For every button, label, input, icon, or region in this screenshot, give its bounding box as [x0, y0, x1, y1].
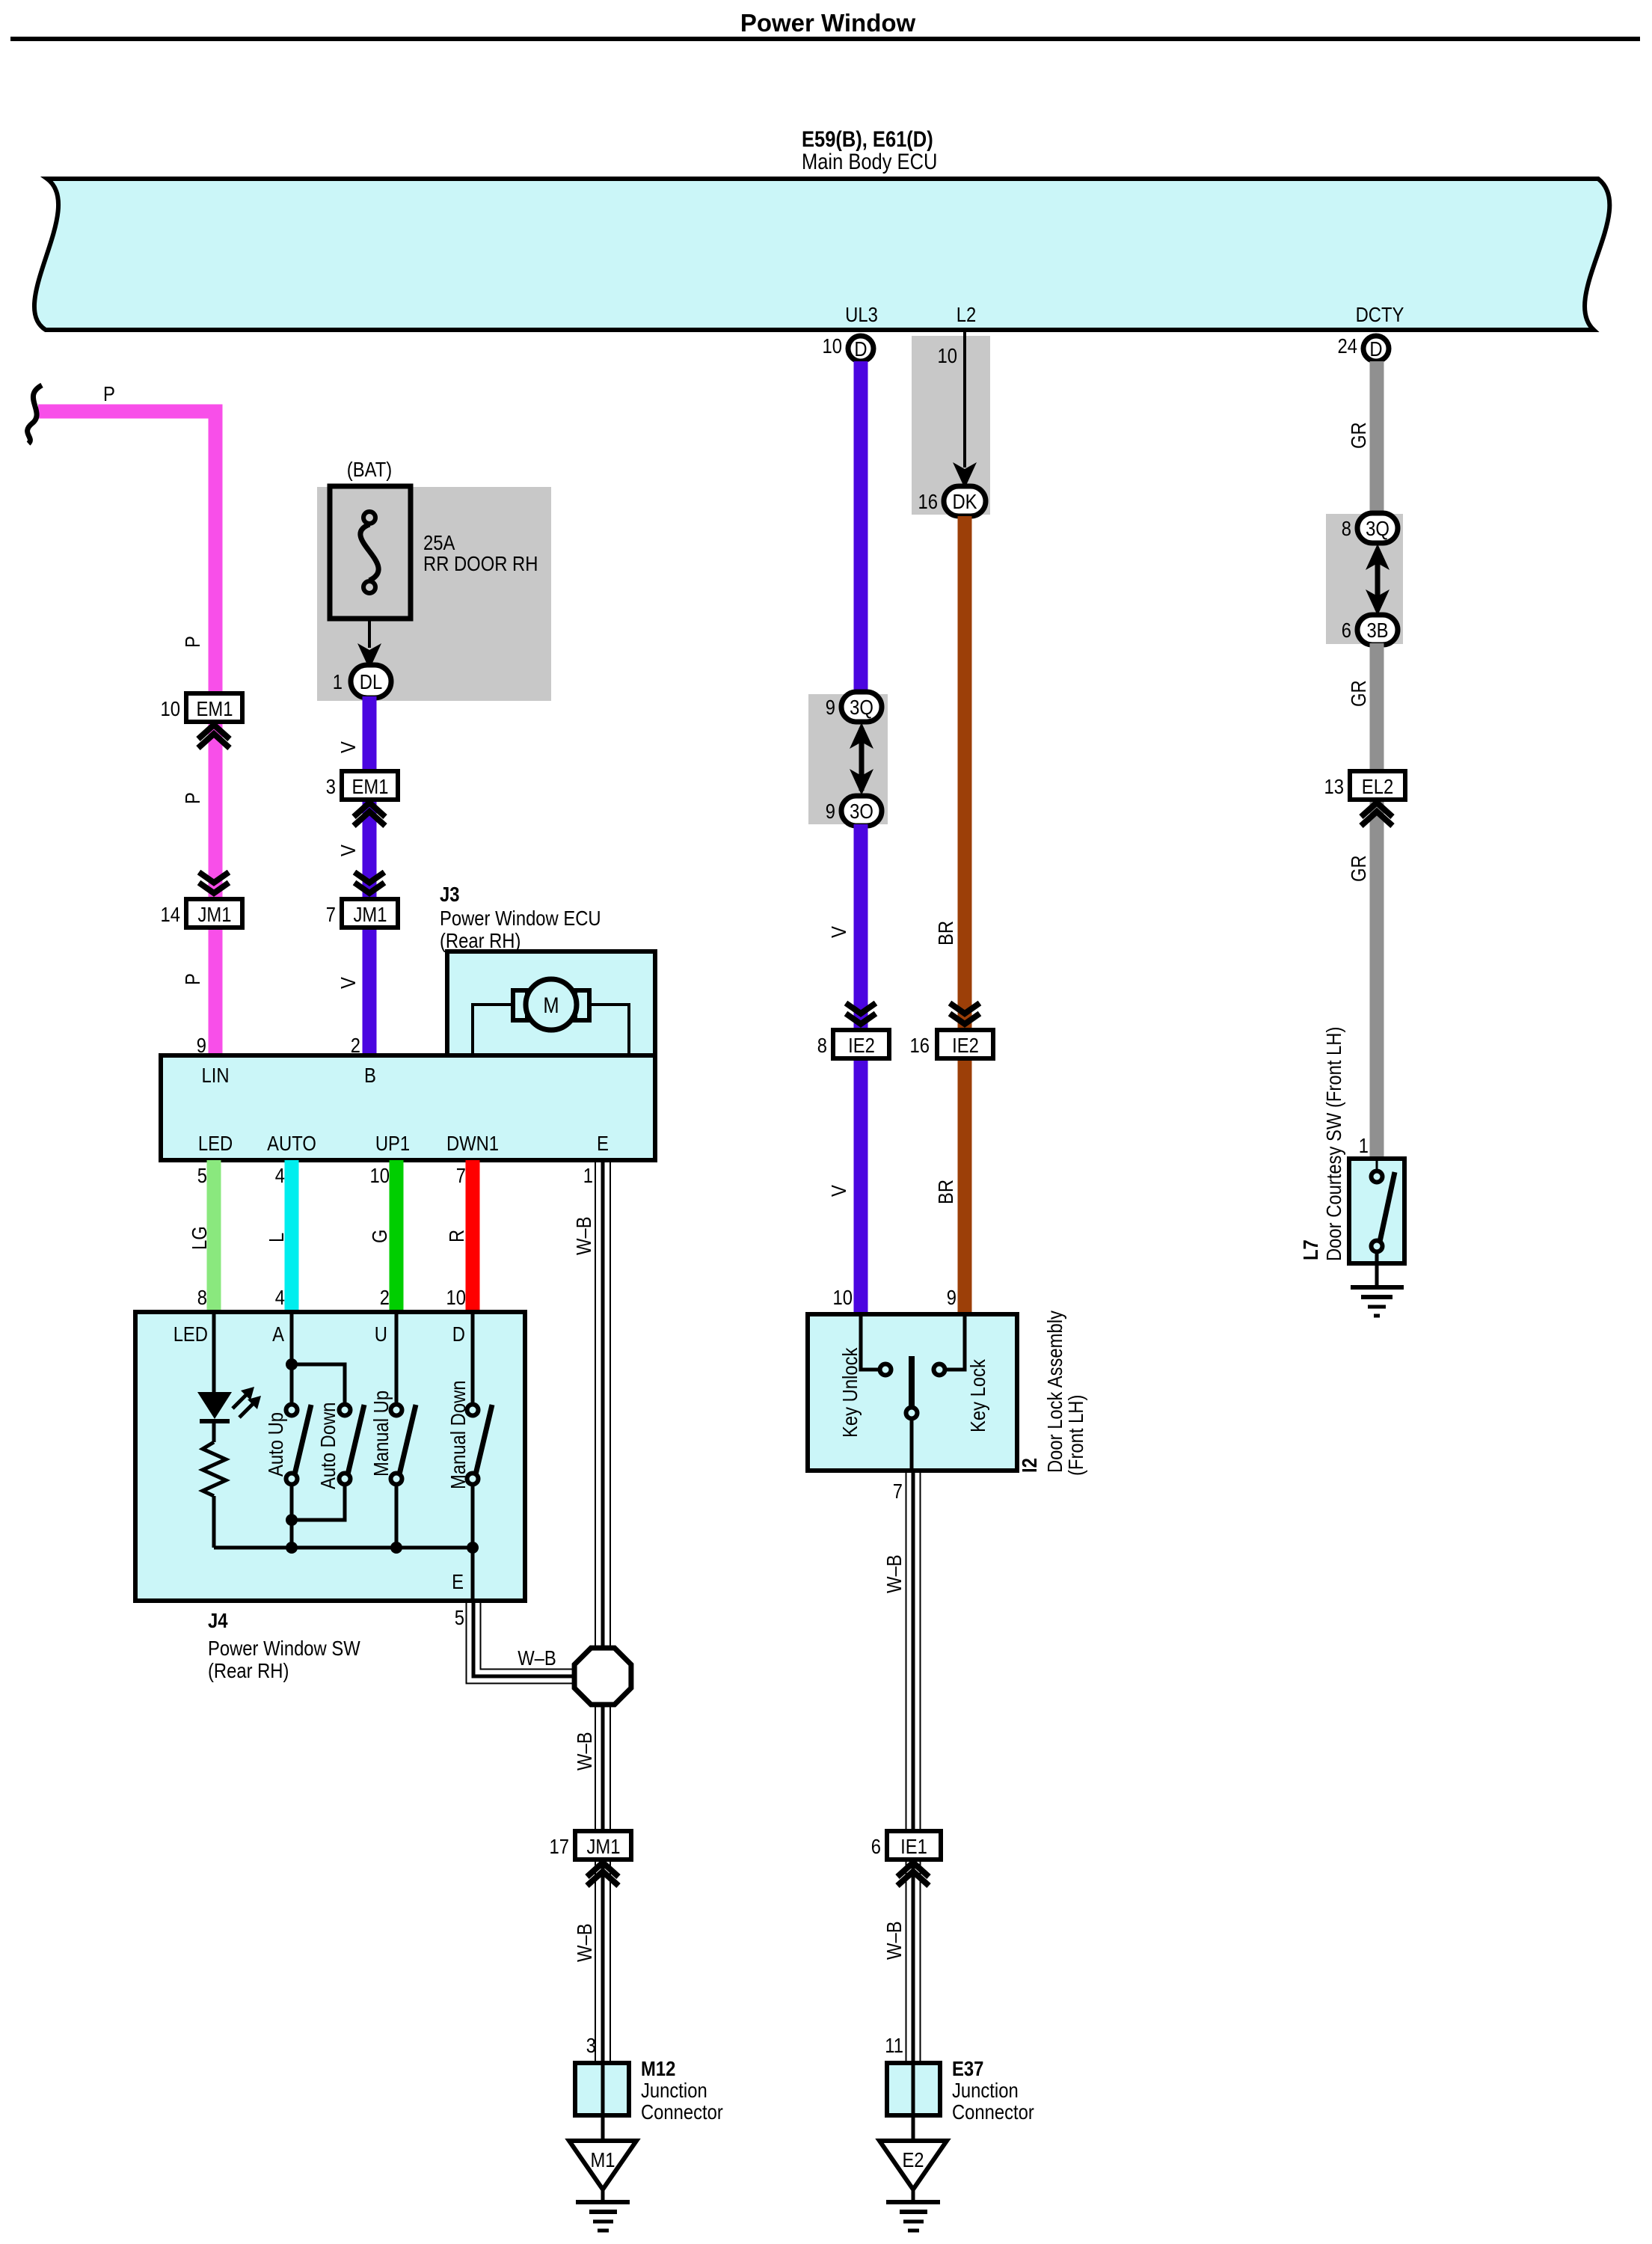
svg-text:V: V: [337, 977, 360, 989]
connector 14 JM1: [161, 899, 243, 928]
connector chevron below JM1: [587, 1863, 618, 1886]
svg-text:11: 11: [885, 2034, 903, 2057]
svg-text:LED: LED: [174, 1322, 208, 1346]
connector 6 IE1: [871, 1831, 941, 1860]
svg-text:U: U: [375, 1322, 387, 1346]
connector 16 DK: [918, 486, 986, 516]
svg-text:L2: L2: [956, 303, 977, 326]
svg-text:DWN1: DWN1: [446, 1132, 499, 1155]
svg-text:J4: J4: [208, 1609, 228, 1632]
svg-text:I2: I2: [1018, 1458, 1041, 1473]
switch Auto Up: [286, 1405, 312, 1485]
node bus D: [467, 1542, 479, 1554]
svg-text:IE2: IE2: [952, 1034, 979, 1057]
svg-text:10: 10: [370, 1164, 390, 1187]
svg-text:P: P: [181, 792, 204, 804]
wire L (cyan): [285, 1160, 299, 1312]
svg-text:UL3: UL3: [845, 303, 878, 326]
svg-text:1: 1: [333, 670, 343, 693]
connector D (UL3 pin 10): [823, 334, 874, 361]
svg-text:LG: LG: [188, 1226, 211, 1250]
svg-text:Connector: Connector: [641, 2100, 723, 2124]
svg-text:3B: 3B: [1366, 619, 1388, 642]
junction connector M12: [575, 2063, 629, 2115]
connector 9 3Q: [826, 692, 882, 722]
wire Manual Down to bus: [471, 1484, 475, 1548]
svg-text:Junction: Junction: [952, 2079, 1019, 2102]
connector chevron below IE1: [897, 1863, 929, 1886]
wire W-B from J3 E to ground junction: [595, 1160, 610, 2063]
svg-text:J3: J3: [440, 883, 460, 906]
connector 17 JM1: [550, 1831, 632, 1860]
svg-text:1: 1: [583, 1164, 593, 1187]
svg-text:5: 5: [455, 1606, 464, 1629]
connector 6 3B: [1342, 615, 1398, 645]
svg-text:9: 9: [826, 696, 835, 719]
bus wire: [214, 1546, 473, 1550]
inter-harness arrow 3Q-3O: [850, 723, 873, 795]
connector 10 EM1: [161, 693, 243, 722]
connector chevron above JM1: [199, 872, 229, 893]
J4 Power Window SW box: [135, 1312, 525, 1601]
svg-text:(BAT): (BAT): [347, 458, 392, 481]
svg-text:IE2: IE2: [848, 1034, 875, 1057]
svg-text:1: 1: [1359, 1134, 1369, 1157]
svg-text:BR: BR: [934, 1180, 957, 1204]
svg-text:E: E: [597, 1132, 609, 1155]
svg-text:16: 16: [918, 490, 939, 513]
svg-text:W–B: W–B: [572, 1216, 595, 1255]
connector chevron above IE2: [846, 1003, 876, 1024]
svg-text:8: 8: [817, 1034, 827, 1057]
svg-text:7: 7: [456, 1164, 466, 1187]
shaded area 3Q/3O: [808, 694, 888, 824]
svg-text:6: 6: [1342, 619, 1351, 642]
connector chevron above IE2: [950, 1003, 980, 1024]
svg-text:10: 10: [938, 344, 958, 367]
svg-text:Door Courtesy SW (Front LH): Door Courtesy SW (Front LH): [1322, 1027, 1345, 1261]
junction connector E37: [887, 2063, 940, 2115]
switch Manual Down: [467, 1405, 493, 1485]
svg-text:D: D: [854, 337, 867, 361]
svg-text:3: 3: [326, 775, 336, 798]
svg-text:10: 10: [823, 334, 843, 358]
svg-text:5: 5: [197, 1164, 207, 1187]
svg-text:4: 4: [275, 1164, 285, 1187]
wire E37 to ground: [912, 2115, 915, 2142]
svg-text:V: V: [337, 741, 360, 753]
svg-text:P: P: [181, 636, 204, 648]
svg-text:(Rear RH): (Rear RH): [440, 929, 521, 952]
wire L2 to DK: [963, 332, 966, 467]
LED D1: [197, 1387, 261, 1421]
svg-text:Power Window: Power Window: [740, 9, 916, 37]
svg-text:M12: M12: [641, 2057, 675, 2080]
motor M: [513, 979, 589, 1030]
connector 8 IE2: [817, 1030, 889, 1058]
arrow into DL: [357, 643, 381, 669]
Main Body ECU band (E59/E61): [34, 179, 1609, 330]
svg-text:EL2: EL2: [1362, 775, 1393, 798]
connector chevron above JM1: [354, 872, 384, 893]
ground M1: [569, 2141, 636, 2231]
svg-text:UP1: UP1: [375, 1132, 410, 1155]
svg-text:JM1: JM1: [198, 903, 232, 926]
wire LED to resistor: [212, 1421, 216, 1442]
svg-text:9: 9: [826, 800, 835, 823]
svg-text:M1: M1: [590, 2148, 615, 2171]
svg-text:(Front LH): (Front LH): [1064, 1395, 1087, 1476]
svg-text:Key Lock: Key Lock: [966, 1358, 989, 1432]
wire BR (brown) DK to door lock: [958, 516, 972, 1314]
wire GR from 3B to L7: [1370, 643, 1384, 1161]
key lock contact: [934, 1314, 965, 1376]
fuse 25A RR DOOR RH: [330, 486, 411, 619]
connector 8 3Q: [1342, 513, 1398, 543]
connector 7 JM1: [326, 899, 398, 928]
wire LG: [207, 1160, 221, 1312]
svg-text:A: A: [272, 1322, 284, 1346]
connector 3 EM1: [326, 771, 398, 800]
svg-text:25A: 25A: [423, 531, 455, 554]
svg-text:B: B: [364, 1064, 376, 1087]
motor wire right: [588, 1005, 629, 1055]
svg-text:E37: E37: [952, 2057, 983, 2080]
svg-text:14: 14: [161, 903, 181, 926]
node bus A: [286, 1542, 298, 1554]
svg-text:W–B: W–B: [882, 1921, 906, 1960]
A branch wire: [290, 1312, 294, 1405]
switch Manual Up: [391, 1405, 417, 1485]
svg-text:Manual Up: Manual Up: [369, 1391, 393, 1477]
svg-text:BR: BR: [934, 921, 957, 945]
svg-text:L: L: [265, 1233, 288, 1242]
svg-text:10: 10: [446, 1286, 467, 1309]
svg-text:17: 17: [550, 1835, 570, 1858]
svg-text:E59(B), E61(D): E59(B), E61(D): [802, 127, 933, 152]
wire V from UL3 D to 3Q: [854, 361, 868, 696]
svg-text:W–B: W–B: [573, 1732, 596, 1771]
svg-text:3O: 3O: [850, 800, 873, 823]
switch Auto Down: [340, 1405, 365, 1485]
svg-text:LED: LED: [198, 1132, 233, 1155]
svg-text:9: 9: [947, 1286, 956, 1309]
D branch wire: [471, 1312, 475, 1405]
svg-text:Power Window SW: Power Window SW: [208, 1637, 360, 1660]
wire W-B from J4 E to junction: [467, 1601, 576, 1684]
svg-text:E2: E2: [902, 2148, 924, 2171]
svg-text:Connector: Connector: [952, 2100, 1034, 2124]
arrow into DK: [953, 462, 977, 488]
svg-text:Main Body ECU: Main Body ECU: [802, 150, 937, 174]
svg-text:D: D: [1369, 337, 1382, 361]
connector 9 3O: [826, 796, 882, 826]
svg-text:3Q: 3Q: [850, 696, 873, 719]
svg-text:EM1: EM1: [197, 697, 233, 720]
svg-text:DCTY: DCTY: [1356, 303, 1404, 326]
node bus U: [390, 1542, 402, 1554]
svg-text:Key Unlock: Key Unlock: [838, 1347, 862, 1438]
wire W-B door lock to ground: [906, 1471, 921, 2063]
svg-text:EM1: EM1: [352, 775, 389, 798]
connector chevron below EL2: [1361, 803, 1392, 826]
svg-text:GR: GR: [1347, 680, 1370, 707]
wire Auto Down to join: [292, 1484, 345, 1520]
svg-text:Manual Down: Manual Down: [446, 1381, 470, 1490]
wire M12 to ground: [601, 2115, 605, 2142]
wire V from 3O to door lock: [854, 824, 868, 1314]
wire GR from DCTY D to 3Q: [1370, 361, 1384, 516]
svg-text:16: 16: [910, 1034, 930, 1057]
svg-text:3Q: 3Q: [1366, 517, 1390, 540]
svg-text:E: E: [452, 1570, 464, 1593]
svg-text:2: 2: [380, 1286, 390, 1309]
inter-harness arrow 3Q-3B: [1366, 544, 1390, 616]
title rule: [10, 37, 1640, 41]
svg-text:8: 8: [1342, 517, 1351, 540]
ground (L7): [1351, 1287, 1404, 1316]
wire P (pink) from harness break to J3 pin LIN: [38, 411, 215, 1058]
ground E2: [879, 2141, 947, 2231]
key unlock contact: [861, 1314, 891, 1376]
svg-text:RR DOOR RH: RR DOOR RH: [423, 552, 538, 575]
wire Manual Up to bus: [395, 1484, 399, 1548]
svg-text:DL: DL: [360, 670, 382, 693]
wire V (violet) DL to J3 pin B: [363, 696, 377, 1058]
connector chevron below EM1: [354, 803, 385, 826]
connector chevron below EM1: [198, 725, 230, 748]
svg-text:Auto Down: Auto Down: [316, 1402, 340, 1489]
svg-text:Auto Up: Auto Up: [264, 1412, 287, 1477]
jumper A to Auto Down: [292, 1364, 345, 1405]
svg-text:M: M: [543, 993, 559, 1018]
wire resistor to bus: [212, 1496, 216, 1548]
svg-text:W–B: W–B: [518, 1646, 556, 1670]
svg-text:4: 4: [275, 1286, 285, 1309]
I2 Door Lock Assembly box: [808, 1314, 1017, 1471]
connector D (DCTY pin 24): [1338, 334, 1390, 361]
svg-text:P: P: [181, 973, 204, 985]
node auto join: [286, 1514, 298, 1526]
shaded area L2: [912, 336, 990, 515]
wire fuse to DL: [368, 619, 371, 648]
svg-text:Power Window ECU: Power Window ECU: [440, 907, 601, 930]
svg-text:L7: L7: [1299, 1239, 1322, 1260]
svg-text:7: 7: [893, 1480, 903, 1503]
svg-text:JM1: JM1: [587, 1835, 621, 1858]
svg-text:R: R: [445, 1230, 468, 1242]
svg-text:GR: GR: [1347, 422, 1370, 449]
wire R (red): [466, 1160, 480, 1312]
svg-text:W–B: W–B: [882, 1554, 906, 1593]
wire bus to E pin: [471, 1548, 475, 1601]
J3 Power Window ECU upper box: [447, 951, 655, 1055]
svg-text:Door Lock Assembly: Door Lock Assembly: [1043, 1310, 1066, 1473]
svg-text:D: D: [452, 1322, 465, 1346]
connector 16 IE2: [910, 1030, 994, 1058]
svg-text:JM1: JM1: [354, 903, 387, 926]
svg-text:AUTO: AUTO: [267, 1132, 316, 1155]
L7 Door Courtesy SW box: [1349, 1159, 1404, 1263]
resistor: [203, 1442, 226, 1496]
svg-text:6: 6: [871, 1835, 881, 1858]
svg-text:W–B: W–B: [573, 1923, 596, 1962]
U branch wire: [395, 1312, 399, 1405]
svg-text:GR: GR: [1347, 855, 1370, 882]
svg-text:(Rear RH): (Rear RH): [208, 1659, 289, 1682]
key switch pole: [906, 1356, 918, 1471]
svg-text:Junction: Junction: [641, 2079, 707, 2102]
svg-text:3: 3: [586, 2034, 596, 2057]
J3 Power Window ECU main box: [161, 1055, 655, 1160]
node A junction: [286, 1358, 298, 1370]
motor wire left: [473, 1005, 515, 1055]
shaded area 3Q/3B: [1326, 514, 1403, 644]
wire G (green): [390, 1160, 404, 1312]
connector 1 DL: [333, 665, 391, 698]
svg-text:V: V: [827, 926, 850, 938]
svg-text:8: 8: [197, 1286, 207, 1309]
svg-text:24: 24: [1338, 334, 1358, 358]
harness break squiggle: [28, 385, 42, 444]
svg-text:7: 7: [326, 903, 336, 926]
svg-text:DK: DK: [952, 490, 977, 513]
svg-text:13: 13: [1324, 775, 1345, 798]
svg-text:LIN: LIN: [202, 1064, 230, 1087]
fuse shaded area: [317, 487, 551, 701]
svg-text:V: V: [337, 844, 360, 856]
courtesy switch: [1372, 1159, 1395, 1287]
svg-text:V: V: [827, 1185, 850, 1197]
svg-text:IE1: IE1: [900, 1835, 927, 1858]
svg-text:G: G: [368, 1230, 391, 1244]
junction octagon: [574, 1648, 631, 1705]
svg-text:10: 10: [161, 697, 181, 720]
wire Auto Up to bus: [290, 1484, 294, 1548]
svg-text:10: 10: [833, 1286, 853, 1309]
LED branch wire: [212, 1312, 216, 1392]
svg-text:P: P: [103, 382, 115, 405]
connector 13 EL2: [1324, 771, 1406, 800]
